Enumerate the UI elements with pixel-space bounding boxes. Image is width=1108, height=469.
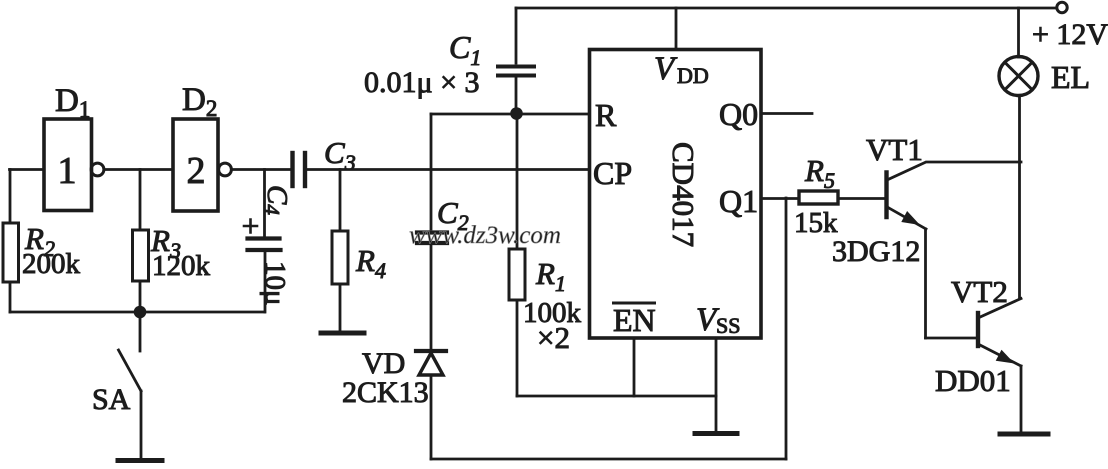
svg-text:VT2: VT2 bbox=[951, 274, 1008, 309]
svg-text:+ 12V: + 12V bbox=[1032, 18, 1108, 51]
svg-text:Q0: Q0 bbox=[719, 96, 758, 132]
svg-text:CD4017: CD4017 bbox=[666, 142, 701, 247]
svg-text:10μ: 10μ bbox=[259, 261, 291, 306]
svg-text:0.01μ × 3: 0.01μ × 3 bbox=[364, 66, 480, 99]
svg-text:×2: ×2 bbox=[537, 320, 570, 355]
svg-text:SS: SS bbox=[716, 313, 740, 338]
svg-text:200k: 200k bbox=[22, 248, 81, 280]
svg-text:DD: DD bbox=[677, 63, 709, 88]
svg-text:Q1: Q1 bbox=[719, 183, 758, 219]
svg-text:3DG12: 3DG12 bbox=[832, 235, 920, 268]
svg-text:1: 1 bbox=[58, 150, 77, 192]
svg-text:www.dz3w.com: www.dz3w.com bbox=[409, 222, 561, 249]
svg-text:C3: C3 bbox=[324, 135, 356, 175]
svg-text:R4: R4 bbox=[355, 243, 386, 283]
svg-text:D1: D1 bbox=[55, 83, 90, 122]
svg-text:D2: D2 bbox=[182, 82, 217, 121]
svg-text:EL: EL bbox=[1051, 59, 1090, 95]
svg-text:R: R bbox=[595, 97, 617, 133]
svg-text:C1: C1 bbox=[449, 29, 481, 70]
svg-text:CP: CP bbox=[593, 155, 632, 191]
svg-text:VT1: VT1 bbox=[866, 132, 923, 167]
svg-text:SA: SA bbox=[92, 383, 131, 416]
svg-text:2CK13: 2CK13 bbox=[342, 376, 429, 409]
svg-text:2: 2 bbox=[187, 150, 206, 192]
svg-text:120k: 120k bbox=[152, 250, 211, 282]
svg-text:V: V bbox=[654, 51, 678, 87]
svg-text:EN: EN bbox=[613, 302, 656, 338]
svg-text:C4: C4 bbox=[260, 185, 293, 215]
svg-text:DD01: DD01 bbox=[935, 363, 1011, 398]
svg-text:R5: R5 bbox=[804, 153, 835, 193]
svg-text:R1: R1 bbox=[535, 256, 566, 296]
